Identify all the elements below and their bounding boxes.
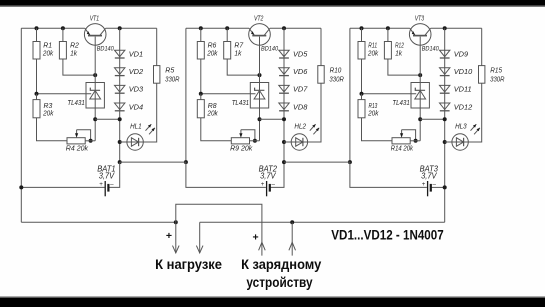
svg-text:–: – — [271, 181, 275, 188]
node rail-R11 junction — [360, 26, 364, 30]
wire R2 bottom lead to transistor base — [63, 59, 95, 75]
wire battery positive lead — [21, 186, 104, 188]
wire battery negative lead — [270, 162, 284, 187]
svg-text:R14 20k: R14 20k — [391, 144, 414, 153]
battery BAT2 3,7V — [267, 181, 270, 196]
svg-text:330R: 330R — [165, 74, 180, 83]
diode VD2 — [115, 68, 125, 76]
diode VD12 — [440, 103, 450, 111]
wire diode chain vertical — [119, 28, 121, 162]
wire battery positive lead — [186, 162, 266, 187]
node R1-R3 divider junction — [35, 92, 39, 96]
transistor VT2 (BD140) — [249, 24, 271, 46]
node LED tap — [443, 140, 447, 144]
wire top rail left segment block 2 — [186, 27, 249, 29]
node TL431-diode wire junction — [258, 117, 262, 121]
node left rail battery junction — [19, 185, 23, 189]
wire rail to R15 — [481, 28, 483, 65]
diode VD8 — [279, 103, 289, 111]
wire R4 right lead to TL431 anode — [85, 140, 95, 142]
svg-text:К зарядному: К зарядному — [241, 256, 321, 272]
wire top rail right segment block 3 — [431, 27, 482, 29]
wire left vertical block 2 — [185, 28, 187, 162]
node bottom junction block 2 — [184, 160, 188, 164]
LED HL1 — [127, 134, 143, 150]
wire R12 top lead — [387, 28, 389, 41]
wire TL431 to diode chain — [420, 118, 445, 120]
svg-text:TL431: TL431 — [392, 98, 409, 107]
wire TL431 ref input — [201, 93, 256, 95]
svg-text:1k: 1k — [395, 49, 403, 58]
node R9 wiper junction — [253, 139, 257, 143]
wire TL431 to diode chain — [260, 118, 285, 120]
wire R15 bottom lead to LED — [468, 83, 481, 142]
node charger minus junction — [290, 220, 294, 224]
wire battery negative lead — [108, 162, 119, 187]
wire VT3 base lead — [419, 37, 421, 83]
node rail-diode junction — [118, 26, 122, 30]
wire charger plus jumper — [176, 204, 262, 255]
wire R13 top lead — [361, 94, 363, 100]
svg-text:VT3: VT3 — [415, 14, 425, 23]
top letterbox bar — [0, 0, 545, 6]
wire TL431 cathode down — [259, 108, 261, 141]
charger minus arrow — [289, 222, 296, 255]
node base-R2 junction — [93, 73, 97, 77]
load minus arrow — [196, 222, 203, 253]
wire R3 top lead — [36, 94, 38, 100]
svg-text:VD2: VD2 — [129, 67, 143, 76]
wire diode chain vertical — [283, 28, 285, 162]
svg-text:VD1...VD12 - 1N4007: VD1...VD12 - 1N4007 — [331, 227, 444, 243]
wire R14 right lead to TL431 anode — [410, 140, 420, 142]
svg-text:VD8: VD8 — [293, 102, 308, 111]
node rail-diode junction — [443, 26, 447, 30]
node battery-bus junction block 3 — [443, 185, 447, 189]
wire LED left lead — [284, 141, 291, 143]
load plus arrow — [173, 222, 180, 253]
resistor R8 — [197, 100, 204, 118]
svg-text:VD6: VD6 — [293, 67, 308, 76]
node R14 wiper junction — [414, 139, 418, 143]
wire negative bus — [200, 221, 445, 223]
node R11-R13 divider junction — [360, 92, 364, 96]
wire R11 bottom lead to node — [361, 59, 363, 94]
svg-text:3,7V: 3,7V — [421, 172, 437, 181]
wire R5 bottom lead to LED — [143, 83, 156, 142]
LED HL2 — [291, 134, 307, 150]
shunt regulator TL431 — [250, 83, 268, 109]
wire LED left lead — [120, 141, 127, 143]
bottom letterbox bar — [0, 296, 545, 297]
wire R14 wiper jumper — [402, 130, 416, 141]
svg-text:TL431: TL431 — [232, 98, 249, 107]
resistor R11 — [358, 42, 365, 60]
wire top rail left segment block 3 — [350, 27, 410, 29]
svg-text:VD1: VD1 — [129, 50, 143, 59]
svg-text:+: + — [99, 181, 103, 188]
charger plus arrow head — [259, 242, 266, 250]
node bottom junction block 3 — [348, 160, 352, 164]
wire BAT1 minus to BAT2 plus — [120, 161, 186, 163]
wire battery positive lead — [350, 162, 427, 187]
node rail-R1 junction — [35, 26, 39, 30]
wire VT2 base lead — [259, 37, 261, 83]
svg-text:BD140: BD140 — [422, 45, 439, 52]
resistor R15 330R — [479, 66, 485, 84]
node LED tap — [282, 140, 286, 144]
diode VD5 — [279, 50, 289, 58]
resistor R13 — [358, 100, 365, 118]
svg-text:VT1: VT1 — [90, 14, 99, 23]
diode VD4 — [115, 103, 125, 111]
svg-text:330R: 330R — [490, 74, 505, 83]
svg-text:BD140: BD140 — [261, 45, 278, 52]
wire left vertical block 3 — [349, 28, 351, 162]
svg-text:К нагрузке: К нагрузке — [155, 256, 222, 272]
HL1 light arrows — [146, 124, 155, 134]
svg-text:–: – — [110, 181, 114, 188]
wire VT1 base lead — [94, 37, 96, 83]
svg-text:+: + — [253, 232, 259, 244]
svg-text:330R: 330R — [329, 74, 344, 83]
wire R11 top lead — [361, 28, 363, 41]
wire battery negative lead — [431, 186, 445, 188]
resistor R1 — [33, 42, 40, 60]
diode VD10 — [440, 68, 450, 76]
transistor VT1 (BD140) — [84, 24, 106, 46]
shunt regulator TL431 — [86, 83, 104, 109]
wire R6 top lead — [200, 28, 202, 41]
LED HL3 — [452, 134, 468, 150]
svg-text:3,7V: 3,7V — [99, 172, 115, 181]
svg-text:R9 20k: R9 20k — [230, 144, 253, 153]
wire R8 top lead — [200, 94, 202, 100]
diode VD1 — [115, 50, 125, 58]
node TL431-diode wire junction — [418, 117, 422, 121]
wire R7 top lead — [226, 28, 228, 41]
svg-text:+: + — [166, 230, 172, 242]
svg-text:VD12: VD12 — [454, 102, 473, 111]
wire top rail right segment block 1 — [106, 27, 157, 29]
svg-text:VD11: VD11 — [454, 85, 472, 94]
wire positive bus — [21, 221, 176, 223]
node rail-R6 junction — [199, 26, 203, 30]
svg-text:+: + — [422, 181, 426, 188]
svg-text:20k: 20k — [206, 49, 218, 58]
svg-text:TL431: TL431 — [67, 98, 84, 107]
svg-text:VT2: VT2 — [254, 14, 264, 23]
svg-text:–: – — [432, 181, 436, 188]
wire top rail right segment block 2 — [270, 27, 321, 29]
node rail-R12 junction — [386, 26, 390, 30]
trimmer resistor R9 — [231, 130, 249, 144]
svg-text:20k: 20k — [42, 49, 54, 58]
node load plus junction — [174, 220, 178, 224]
battery BAT1 3,7V — [105, 181, 108, 196]
wire diode chain vertical — [444, 28, 446, 222]
svg-text:20k: 20k — [367, 49, 379, 58]
svg-text:20k: 20k — [42, 109, 54, 118]
svg-text:устройству: устройству — [246, 274, 312, 290]
svg-text:VD10: VD10 — [454, 67, 473, 76]
resistor R3 — [33, 100, 40, 118]
shunt regulator TL431 — [411, 83, 429, 109]
resistor R2 — [59, 42, 66, 60]
wire left vertical block 1 — [20, 28, 22, 222]
svg-text:R5: R5 — [165, 66, 175, 75]
diode VD7 — [279, 85, 289, 93]
node diode chain junction — [118, 117, 122, 121]
svg-text:+: + — [261, 181, 265, 188]
svg-text:VD7: VD7 — [293, 85, 308, 94]
wire R10 bottom lead to LED — [308, 83, 321, 142]
wire rail to R10 — [320, 28, 322, 65]
wire R2 top lead — [62, 28, 64, 41]
svg-text:VD5: VD5 — [293, 50, 308, 59]
svg-text:BD140: BD140 — [97, 45, 114, 52]
resistor R7 — [224, 42, 231, 60]
wire TL431 to diode chain — [95, 118, 120, 120]
svg-text:1k: 1k — [234, 49, 242, 58]
wire TL431 ref input — [362, 93, 417, 95]
wire R8 bottom lead to trimmer — [201, 118, 232, 141]
wire R6 bottom lead to node — [200, 59, 202, 94]
svg-text:HL1: HL1 — [130, 121, 142, 130]
trimmer resistor R4 — [67, 130, 85, 144]
wire R9 wiper jumper — [241, 130, 255, 141]
resistor R6 — [197, 42, 204, 60]
svg-text:3,7V: 3,7V — [260, 172, 276, 181]
node rail-diode junction — [282, 26, 286, 30]
trimmer resistor R14 — [392, 130, 410, 144]
diode VD6 — [279, 68, 289, 76]
wire R9 right lead to TL431 anode — [250, 140, 260, 142]
node LED tap — [118, 140, 122, 144]
resistor R12 — [384, 42, 391, 60]
svg-text:VD9: VD9 — [454, 50, 468, 59]
node rail-R7 junction — [225, 26, 229, 30]
node rail-R2 junction — [61, 26, 65, 30]
node base-R12 junction — [418, 73, 422, 77]
svg-text:R15: R15 — [490, 66, 502, 75]
diode VD11 — [440, 85, 450, 93]
wire R13 bottom lead to trimmer — [362, 118, 393, 141]
wire R4 wiper jumper — [77, 130, 91, 141]
HL3 light arrows — [471, 124, 480, 134]
node bottom-right junction block 2 — [282, 160, 286, 164]
svg-text:20k: 20k — [207, 109, 219, 118]
node base-R7 junction — [258, 73, 262, 77]
wire TL431 cathode down — [419, 108, 421, 141]
HL2 light arrows — [310, 124, 319, 134]
wire R12 bottom lead to transistor base — [388, 59, 420, 75]
wire R1 top lead — [36, 28, 38, 41]
node R6-R8 divider junction — [199, 92, 203, 96]
wire LED left lead — [445, 141, 452, 143]
svg-text:VD4: VD4 — [129, 102, 143, 111]
wire top rail left segment block 1 — [21, 27, 85, 29]
resistor R5 330R — [154, 66, 160, 84]
svg-text:VD3: VD3 — [129, 85, 144, 94]
diode VD3 — [115, 85, 125, 93]
svg-text:R4 20k: R4 20k — [66, 144, 89, 153]
diode VD9 — [440, 50, 450, 58]
wire TL431 cathode down — [94, 108, 96, 141]
node diode chain junction — [443, 117, 447, 121]
node R4 wiper junction — [89, 139, 93, 143]
svg-text:HL3: HL3 — [455, 121, 467, 130]
resistor R10 330R — [318, 66, 324, 84]
svg-text:20k: 20k — [367, 109, 379, 118]
node bottom junction block 1 — [118, 160, 122, 164]
node TL431-diode wire junction — [93, 117, 97, 121]
svg-text:1k: 1k — [70, 49, 78, 58]
wire R3 bottom lead to trimmer — [37, 118, 68, 141]
svg-text:HL2: HL2 — [294, 121, 306, 130]
node diode chain junction — [282, 117, 286, 121]
wire rail to R5 — [156, 28, 158, 65]
wire R1 bottom lead to node — [36, 59, 38, 94]
transistor VT3 (BD140) — [409, 24, 431, 46]
battery BAT3 3,7V — [428, 181, 431, 196]
wire R7 bottom lead to transistor base — [227, 59, 259, 75]
wire BAT2 minus to BAT3 plus — [284, 161, 350, 163]
wire TL431 ref input — [37, 93, 92, 95]
svg-text:R10: R10 — [330, 66, 342, 75]
